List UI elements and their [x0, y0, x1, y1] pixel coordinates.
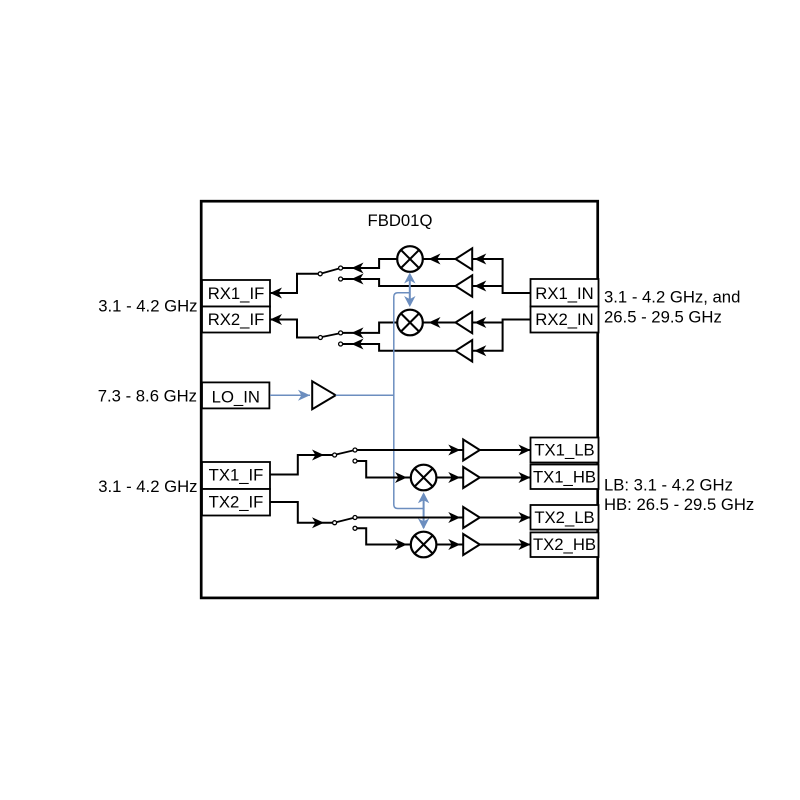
arrowhead to SW1 lower throw: [352, 274, 364, 285]
svg-text:RX1_IN: RX1_IN: [535, 284, 593, 303]
label LB: 3.1 - 4.2 GHz: [604, 476, 733, 495]
svg-text:TX2_IF: TX2_IF: [209, 493, 264, 512]
svg-text:TX1_LB: TX1_LB: [534, 441, 594, 460]
switch SW3 lower throw contact: [353, 459, 357, 463]
svg-text:7.3 - 8.6 GHz: 7.3 - 8.6 GHz: [98, 386, 197, 405]
switch SW2 upper throw contact: [339, 331, 343, 335]
wire SW3 upper throw to amp A6: [357, 449, 463, 451]
switch SW1 blade: [322, 269, 338, 274]
mixer X3 (TX1): [411, 465, 437, 491]
switch SW4 pole contact: [333, 521, 337, 525]
switch SW3 blade: [337, 451, 353, 455]
svg-text:RX1_IF: RX1_IF: [208, 284, 265, 303]
wire RX2 branch to mixer amp: [472, 322, 502, 324]
amp A7 (TX1 HB PA): [463, 467, 480, 488]
wire mixer X3 to amp A7: [437, 477, 464, 479]
wire switch SW2 pole to RX2_IF: [270, 320, 318, 338]
wire amp A9 to TX2_HB: [480, 544, 531, 546]
switch SW2 pole contact: [318, 336, 322, 340]
port box RX1_IF: [202, 280, 270, 307]
arrowhead into amp A4: [474, 345, 486, 356]
svg-text:3.1 - 4.2 GHz, and: 3.1 - 4.2 GHz, and: [604, 287, 740, 306]
arrowhead to SW2 upper throw: [352, 327, 364, 338]
chip outline border: [201, 201, 598, 598]
svg-text:TX2_HB: TX2_HB: [533, 535, 596, 554]
amp A3 (RX2 mixer path LNA): [456, 312, 473, 333]
arrowhead into mixer X2: [429, 317, 441, 328]
switch SW3 upper throw contact: [353, 448, 357, 452]
wire amp A6 to TX1_LB: [480, 449, 531, 451]
wire mixer X1 output to switch SW1 upper throw: [343, 259, 397, 268]
arrowhead into LO amp (blue): [298, 390, 310, 401]
svg-text:3.1 - 4.2 GHz: 3.1 - 4.2 GHz: [98, 297, 197, 316]
wire amp A4 output to switch SW2 lower throw: [343, 344, 456, 351]
wire LO_IN to LO amp (blue): [270, 394, 310, 396]
arrowhead to SW1 upper throw: [352, 263, 364, 274]
arrowhead into amp A1: [474, 254, 486, 265]
switch SW4 blade: [337, 518, 353, 522]
port box TX1_LB: [531, 438, 599, 463]
amp A1 (RX1 mixer path LNA): [456, 248, 473, 269]
svg-text:26.5 - 29.5 GHz: 26.5 - 29.5 GHz: [604, 307, 722, 326]
label 3.1 - 4.2 GHz (RX IF): [98, 297, 197, 316]
wire amp A2 output to switch SW1 lower throw: [343, 279, 456, 286]
wire RX1_IN to splitter node: [472, 259, 530, 293]
label HB: 26.5 - 29.5 GHz: [604, 495, 754, 514]
wire mixer X4 to amp A9: [437, 544, 464, 546]
arrowhead into amp A8: [448, 512, 460, 523]
wire RX1 branch to bypass amp: [472, 285, 502, 287]
wire SW4 lower throw to mixer X4: [357, 528, 410, 544]
label 3.1 - 4.2 GHz, and (RX IN): [604, 287, 740, 306]
arrowhead into SW4 pole: [312, 517, 324, 528]
arrowhead into SW3 pole: [312, 450, 324, 461]
label 26.5 - 29.5 GHz (RX IN): [604, 307, 722, 326]
wire SW4 upper throw to amp A8: [357, 517, 463, 519]
switch SW2 lower throw contact: [339, 342, 343, 346]
wire mixer X2 output to switch SW2 upper throw: [343, 323, 397, 333]
wire amp A8 to TX2_LB: [480, 517, 531, 519]
wire RX2_IN to splitter node: [472, 320, 530, 351]
amp A9 (TX2 HB PA): [463, 534, 480, 555]
amp A2 (RX1 bypass LNA): [456, 275, 473, 296]
arrowhead into mixer X3: [395, 472, 407, 483]
svg-text:TX1_IF: TX1_IF: [209, 466, 264, 485]
arrowhead into mixer X4: [395, 539, 407, 550]
arrowhead into amp A2: [474, 281, 486, 292]
amp A4 (RX2 bypass LNA): [456, 340, 473, 361]
port box TX1_HB: [531, 465, 599, 490]
wire amp A3 to mixer X2: [423, 322, 456, 324]
switch SW4 upper throw contact: [353, 516, 357, 520]
wire switch SW1 pole to RX1_IF: [270, 274, 318, 293]
mixer X4 (TX2): [411, 532, 437, 558]
svg-text:3.1 - 4.2 GHz: 3.1 - 4.2 GHz: [98, 477, 197, 496]
wire amp A7 to TX1_HB: [480, 477, 531, 479]
arrowhead into RX2_IF: [270, 314, 282, 325]
svg-text:FBD01Q: FBD01Q: [368, 211, 433, 230]
switch SW4 lower throw contact: [353, 526, 357, 530]
label 3.1 - 4.2 GHz (TX IF): [98, 477, 197, 496]
LO arrowhead into mixer X3 (blue): [418, 492, 429, 503]
switch SW1 lower throw contact: [339, 277, 343, 281]
arrowhead into TX1_HB: [519, 472, 531, 483]
title FBD01Q: [368, 211, 433, 230]
port box TX2_HB: [531, 532, 599, 557]
svg-text:RX2_IN: RX2_IN: [535, 310, 593, 329]
label 7.3 - 8.6 GHz (LO): [98, 386, 197, 405]
arrowhead into TX2_HB: [519, 539, 531, 550]
arrowhead into amp A7: [448, 472, 460, 483]
port box RX2_IN: [531, 307, 599, 333]
wire TX1_IF to switch SW3 pole: [270, 455, 332, 475]
wire LO amp to trunk (blue): [336, 394, 394, 396]
wire TX2_IF to switch SW4 pole: [270, 502, 332, 523]
svg-text:LO_IN: LO_IN: [212, 388, 260, 407]
switch SW2 blade: [322, 334, 338, 337]
svg-text:RX2_IF: RX2_IF: [208, 310, 265, 329]
arrowhead into amp A9: [448, 539, 460, 550]
arrowhead into amp A6: [448, 445, 460, 456]
port box RX1_IN: [531, 279, 599, 307]
wire amp A1 to mixer X1: [423, 258, 456, 260]
mixer X2 (RX2): [397, 310, 423, 336]
mixer X1 (RX1): [397, 246, 423, 272]
wire SW3 lower throw to mixer X3: [357, 461, 410, 478]
port box TX2_LB: [531, 505, 599, 530]
LO arrowhead into mixer X4 (blue): [418, 518, 429, 529]
arrowhead into mixer X1: [429, 254, 441, 265]
port box LO_IN: [202, 382, 269, 408]
arrowhead into TX1_LB: [519, 445, 531, 456]
switch SW1 pole contact: [318, 272, 322, 276]
switch SW3 pole contact: [333, 453, 337, 457]
switch SW1 upper throw contact: [339, 266, 343, 270]
port box TX2_IF: [202, 489, 270, 516]
amp A8 (TX2 LB PA): [463, 507, 480, 528]
amp A6 (TX1 LB PA): [463, 440, 480, 461]
port box RX2_IF: [202, 307, 270, 333]
amp A5 (LO buffer): [312, 381, 336, 409]
arrowhead into RX1_IF: [270, 288, 282, 299]
svg-text:TX2_LB: TX2_LB: [534, 508, 594, 527]
LO arrowhead into mixer X2 (blue): [404, 296, 415, 307]
LO trunk vertical (blue): [394, 293, 424, 509]
LO arrowhead into mixer X1 (blue): [404, 273, 415, 284]
port box TX1_IF: [202, 462, 270, 489]
svg-text:HB: 26.5 - 29.5 GHz: HB: 26.5 - 29.5 GHz: [604, 495, 754, 514]
svg-text:LB: 3.1 - 4.2 GHz: LB: 3.1 - 4.2 GHz: [604, 476, 733, 495]
arrowhead into TX2_LB: [519, 512, 531, 523]
LO feed line between RX mixers (blue): [409, 276, 411, 304]
arrowhead into amp A3: [474, 317, 486, 328]
LO feed line between TX mixers (blue): [423, 494, 425, 528]
arrowhead to SW2 lower throw: [352, 339, 364, 350]
svg-text:TX1_HB: TX1_HB: [533, 468, 596, 487]
